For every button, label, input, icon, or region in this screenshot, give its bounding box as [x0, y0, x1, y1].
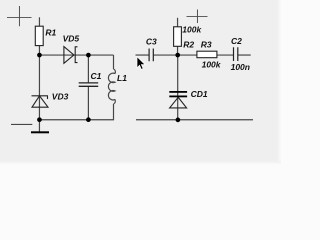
svg-text:100k: 100k — [182, 24, 202, 34]
svg-text:VD5: VD5 — [63, 34, 80, 44]
svg-text:VD3: VD3 — [52, 91, 69, 101]
svg-text:C2: C2 — [231, 36, 242, 46]
svg-text:C1: C1 — [91, 71, 102, 81]
svg-text:R1: R1 — [45, 27, 56, 37]
svg-text:L1: L1 — [117, 73, 127, 83]
svg-text:100k: 100k — [202, 60, 222, 70]
svg-text:R2: R2 — [183, 40, 194, 50]
svg-text:C3: C3 — [146, 37, 157, 47]
svg-text:R3: R3 — [201, 40, 212, 50]
svg-text:100n: 100n — [231, 62, 250, 72]
svg-text:CD1: CD1 — [191, 89, 208, 99]
